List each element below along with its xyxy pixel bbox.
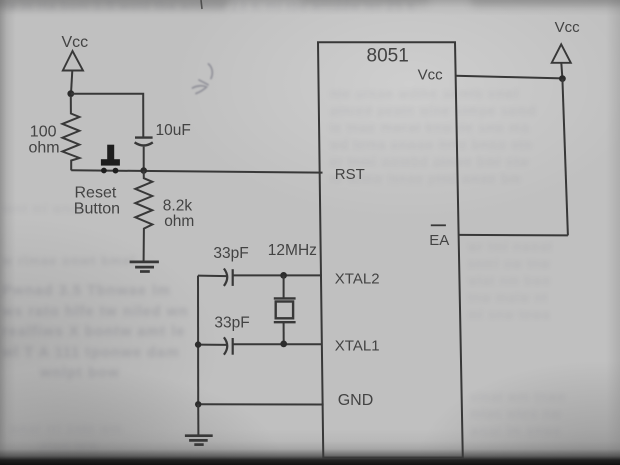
resistor 100 ohm (62, 96, 79, 170)
wire left crystal rail (197, 276, 199, 405)
node D (rail/XTAL1) (195, 341, 201, 347)
svg-text:RST: RST (335, 166, 365, 183)
svg-text:XTAL1: XTAL1 (335, 337, 380, 354)
svg-text:EA: EA (429, 232, 449, 249)
node E (crystal bottom) (280, 341, 287, 348)
wire right rail down (562, 79, 568, 236)
wire XTAL2 line (left of cap) (198, 275, 227, 278)
wire XTAL2 line (right of cap) (233, 274, 322, 276)
resistor 8.2k ohm (135, 171, 152, 261)
svg-text:33pF: 33pF (214, 314, 249, 331)
wire to ground symbol (197, 404, 199, 435)
svg-text:GND: GND (338, 392, 374, 409)
node G (559, 75, 566, 82)
pen scribble mark (193, 64, 213, 94)
ground (bottom center) (185, 436, 213, 445)
wire EA line (459, 234, 568, 237)
svg-text:Reset: Reset (75, 185, 117, 202)
IC 8051 box (318, 42, 463, 457)
svg-text:100: 100 (30, 124, 57, 141)
photo edge tick (201, 0, 202, 9)
wire Vcc symbol to node G (561, 63, 562, 79)
node A (67, 90, 74, 97)
wire node A to capacitor branch (71, 94, 144, 137)
capacitor 33pF lower (224, 337, 233, 354)
Vcc power symbol (right) (552, 44, 571, 63)
svg-text:Vcc: Vcc (418, 67, 444, 84)
svg-text:10uF: 10uF (156, 122, 191, 139)
svg-text:8.2k: 8.2k (163, 198, 193, 215)
capacitor 10uF (135, 138, 153, 146)
wire 10uF to node B (143, 147, 145, 171)
svg-text:Vcc: Vcc (555, 19, 581, 36)
node F (rail/GND) (195, 401, 201, 407)
wire RST line (71, 170, 322, 172)
svg-text:ohm: ohm (164, 213, 194, 230)
svg-text:XTAL2: XTAL2 (335, 270, 380, 287)
pushbutton Reset (101, 145, 120, 174)
Vcc power symbol (left) (63, 51, 83, 71)
wire Vcc pin to right rail (455, 76, 562, 79)
node B (RST junction) (140, 167, 147, 174)
capacitor 33pF upper (224, 269, 233, 286)
crystal 12MHz (274, 275, 296, 344)
wire Vcc to node A (71, 71, 72, 94)
svg-text:Vcc: Vcc (62, 34, 89, 51)
wire GND line (198, 403, 323, 405)
wire XTAL1 line (right of cap) (233, 343, 322, 345)
svg-text:12MHz: 12MHz (268, 242, 317, 259)
EA overline (431, 224, 446, 226)
svg-text:Button: Button (74, 201, 120, 218)
svg-text:ohm: ohm (29, 140, 60, 157)
wire XTAL1 line (left of cap) (198, 344, 227, 346)
faint bleed-through text (4, 0, 620, 14)
svg-text:33pF: 33pF (213, 245, 248, 262)
svg-text:8051: 8051 (367, 46, 409, 67)
node C (crystal top) (280, 272, 287, 279)
ground (below 8.2k) (130, 262, 159, 272)
